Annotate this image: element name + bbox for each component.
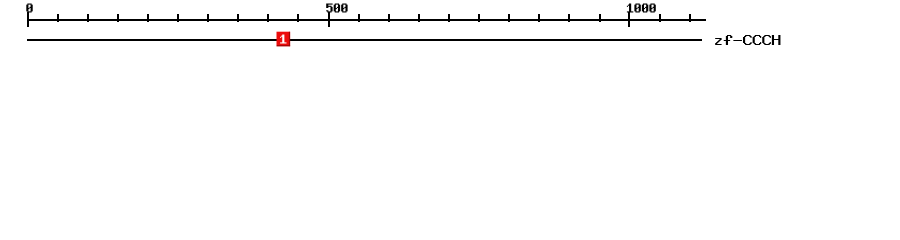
domain name zf-CCCH: [715, 35, 780, 45]
domain hit box (red): [277, 32, 291, 47]
sequence line: [27, 39, 702, 41]
ruler main line: [27, 19, 706, 21]
ruler label 0: [26, 4, 32, 13]
ruler minor ticks: [57, 14, 691, 22]
ruler label 500: [326, 4, 347, 13]
ruler label 1000: [627, 4, 656, 13]
ruler major ticks 0/500/1000: [27, 12, 630, 27]
hit number 1: [280, 35, 286, 44]
